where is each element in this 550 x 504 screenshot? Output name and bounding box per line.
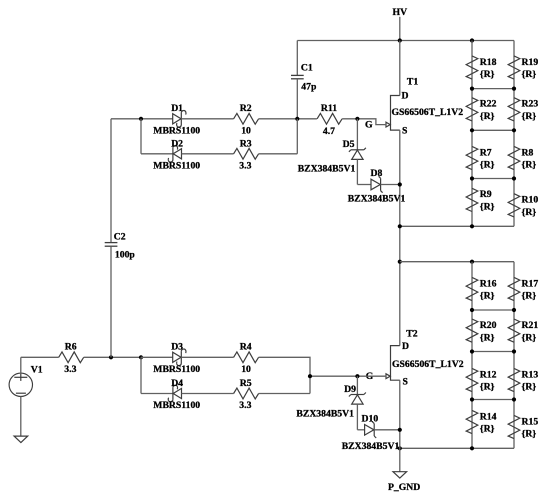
- wire branch down to row 2: [140, 119, 142, 154]
- resistor R4 10: [234, 352, 259, 363]
- svg-text:R12: R12: [480, 369, 497, 380]
- svg-text:BZX384B5V1: BZX384B5V1: [348, 193, 406, 204]
- wire D3 to R4: [181, 356, 233, 358]
- wire T1 source / mid rail: [399, 130, 401, 346]
- resistor R15 {R}: [508, 415, 520, 438]
- svg-text:R16: R16: [480, 278, 497, 289]
- wire top network bottom rail: [400, 225, 514, 227]
- resistor R21 {R}: [508, 319, 520, 342]
- junction dot C1 bottom / gate line: [295, 117, 299, 121]
- svg-text:R4: R4: [240, 342, 252, 353]
- svg-text:MBRS1100: MBRS1100: [153, 400, 200, 411]
- wire R6 to C2 node: [84, 356, 141, 358]
- wire source rail segment to lower network: [398, 260, 402, 264]
- wire HV stub: [399, 17, 401, 41]
- svg-text:R9: R9: [480, 189, 492, 200]
- junction dot D5 tap: [355, 117, 359, 121]
- resistor R5 3.3: [234, 388, 259, 399]
- transistor T1 GS66506T_L1V2: [391, 96, 400, 131]
- diode D2 MBRS1100: [173, 149, 181, 159]
- svg-text:R6: R6: [65, 342, 77, 353]
- junction dot D10/source: [398, 428, 402, 432]
- wire T1 drain: [399, 41, 401, 96]
- svg-text:R3: R3: [240, 138, 252, 149]
- wire R5 to riser: [259, 393, 310, 395]
- svg-text:G: G: [365, 120, 373, 131]
- resistor R17 {R}: [508, 277, 520, 300]
- svg-text:4.7: 4.7: [323, 126, 335, 137]
- svg-text:D3: D3: [171, 342, 183, 353]
- wire right column bottom network: [513, 262, 515, 449]
- svg-text:T1: T1: [407, 76, 418, 87]
- svg-text:D2: D2: [171, 138, 183, 149]
- svg-text:{R}: {R}: [522, 207, 537, 218]
- svg-text:{R}: {R}: [522, 429, 537, 440]
- wire row2 left: [141, 153, 173, 155]
- svg-text:10: 10: [241, 364, 251, 375]
- resistor R10 {R}: [508, 194, 520, 217]
- svg-text:R20: R20: [480, 320, 497, 331]
- junction dot C2 bottom: [109, 355, 113, 359]
- svg-text:MBRS1100: MBRS1100: [153, 160, 200, 171]
- wire R3 to return riser: [259, 153, 298, 155]
- svg-text:{R}: {R}: [522, 332, 537, 343]
- svg-text:R7: R7: [480, 147, 492, 158]
- svg-text:R2: R2: [240, 103, 252, 114]
- svg-text:{R}: {R}: [480, 424, 495, 435]
- resistor R18 {R}: [466, 56, 478, 79]
- svg-text:D: D: [402, 91, 409, 102]
- wire left column top network: [471, 41, 473, 227]
- svg-text:10: 10: [241, 125, 251, 136]
- svg-text:{R}: {R}: [522, 160, 537, 171]
- svg-text:R18: R18: [480, 57, 497, 68]
- wire D9 to D10: [357, 429, 364, 431]
- resistor R7 {R}: [466, 146, 478, 169]
- svg-text:{R}: {R}: [480, 291, 495, 302]
- svg-text:47p: 47p: [301, 82, 316, 93]
- wire V1 to R6: [21, 356, 59, 358]
- wire D8 to source rail: [381, 184, 400, 186]
- junction dot C2 top / gate line: [139, 117, 143, 121]
- wire lower network bottom rail: [400, 447, 514, 449]
- svg-text:D4: D4: [171, 378, 183, 389]
- svg-text:S: S: [403, 376, 408, 387]
- svg-text:P_GND: P_GND: [388, 482, 420, 493]
- wire return riser row2 to gate line: [296, 119, 298, 154]
- svg-text:S: S: [402, 126, 407, 137]
- node lower row boundary 2: [472, 351, 514, 353]
- wire D1 to R2: [181, 118, 233, 120]
- svg-text:BZX384B5V1: BZX384B5V1: [298, 163, 356, 174]
- wire R11 to gate jog: [342, 119, 387, 125]
- svg-text:3.3: 3.3: [239, 400, 251, 411]
- wire V1 top: [20, 357, 22, 373]
- junction dot D9 tap: [355, 374, 359, 378]
- svg-text:GS66506T_L1V2: GS66506T_L1V2: [392, 107, 464, 118]
- resistor R13 {R}: [508, 368, 520, 391]
- svg-text:BZX384B5V1: BZX384B5V1: [342, 441, 400, 452]
- svg-text:R22: R22: [480, 99, 497, 110]
- resistor R11 4.7: [317, 113, 342, 124]
- svg-text:MBRS1100: MBRS1100: [153, 125, 200, 136]
- svg-text:{R}: {R}: [522, 382, 537, 393]
- svg-text:V1: V1: [31, 365, 43, 376]
- svg-text:{R}: {R}: [480, 160, 495, 171]
- node row boundary 1: [472, 88, 514, 90]
- junction dot D3/D4 split: [139, 355, 143, 359]
- wire D10 to source rail: [374, 429, 400, 431]
- ground V1: [14, 436, 28, 442]
- svg-text:R17: R17: [522, 278, 539, 289]
- resistor R6 3.3: [59, 352, 84, 363]
- svg-text:R11: R11: [321, 103, 337, 114]
- svg-text:R23: R23: [522, 99, 539, 110]
- diode D9 BZX384B5V1 zener: [356, 376, 358, 394]
- wire lower network top rail: [400, 261, 514, 263]
- svg-text:3.3: 3.3: [64, 364, 76, 375]
- svg-text:R14: R14: [480, 411, 497, 422]
- diode D5 BZX384B5V1 zener: [356, 119, 358, 150]
- wire R2 to C1 node: [259, 118, 317, 120]
- wire D5 to D8: [357, 184, 371, 186]
- svg-text:{R}: {R}: [522, 69, 537, 80]
- svg-text:MBRS1100: MBRS1100: [153, 364, 200, 375]
- svg-text:D1: D1: [171, 103, 183, 114]
- svg-text:R21: R21: [522, 320, 539, 331]
- svg-text:{R}: {R}: [480, 111, 495, 122]
- wire R4 to riser: [259, 357, 310, 393]
- resistor R20 {R}: [466, 319, 478, 342]
- resistor R8 {R}: [508, 146, 520, 169]
- node row boundary 3: [472, 178, 514, 180]
- node lower row boundary 3: [472, 399, 514, 401]
- junction dot top rail / left resistor column: [470, 38, 474, 42]
- capacitor C1: [296, 41, 298, 76]
- wire V1 bottom: [20, 397, 22, 437]
- resistor R2 10: [234, 113, 259, 124]
- svg-text:{R}: {R}: [480, 69, 495, 80]
- ground P_GND: [393, 472, 407, 478]
- svg-text:C2: C2: [114, 231, 126, 242]
- junction dot D8/source: [398, 182, 402, 186]
- svg-text:{R}: {R}: [522, 111, 537, 122]
- diode D8 BZX384B5V1 zener: [380, 178, 382, 190]
- svg-text:3.3: 3.3: [239, 160, 251, 171]
- resistor R22 {R}: [466, 98, 478, 121]
- resistor R23 {R}: [508, 98, 520, 121]
- svg-text:R5: R5: [240, 378, 252, 389]
- svg-text:{R}: {R}: [480, 332, 495, 343]
- svg-text:D9: D9: [344, 384, 356, 395]
- diode D4 MBRS1100: [173, 388, 181, 398]
- resistor R12 {R}: [466, 368, 478, 391]
- wire gate line 2: [310, 375, 387, 377]
- svg-text:R10: R10: [522, 195, 539, 206]
- svg-text:GS66506T_L1V2: GS66506T_L1V2: [392, 359, 464, 370]
- resistor R14 {R}: [466, 410, 478, 433]
- junction dot gate riser tap: [308, 374, 312, 378]
- node lower row boundary 1: [472, 309, 514, 311]
- wire branch down to row 2 lower: [140, 357, 142, 393]
- svg-text:{R}: {R}: [522, 291, 537, 302]
- wire T2 source: [399, 380, 401, 471]
- capacitor C2 100p: [110, 119, 112, 243]
- diode D10 BZX384B5V1 zener: [373, 424, 375, 436]
- wire gate line 1 left: [111, 118, 173, 120]
- svg-text:D: D: [402, 341, 409, 352]
- diode D1 MBRS1100: [173, 114, 181, 124]
- resistor R9 {R}: [466, 188, 478, 211]
- svg-text:BZX384B5V1: BZX384B5V1: [296, 409, 354, 420]
- svg-text:R19: R19: [522, 57, 539, 68]
- wire top rail y=40.5: [297, 40, 514, 42]
- svg-text:R13: R13: [522, 369, 539, 380]
- wire right column top network: [513, 41, 515, 227]
- svg-text:HV: HV: [393, 7, 408, 18]
- svg-text:C1: C1: [301, 63, 313, 74]
- wire D4 to R5: [182, 393, 234, 395]
- voltage source V1: [9, 373, 32, 396]
- resistor R3 3.3: [234, 148, 259, 159]
- resistor R16 {R}: [466, 277, 478, 300]
- svg-text:100p: 100p: [115, 249, 135, 260]
- svg-text:{R}: {R}: [480, 382, 495, 393]
- svg-text:{R}: {R}: [480, 202, 495, 213]
- svg-text:R8: R8: [522, 147, 534, 158]
- wire D2 to R3: [182, 153, 234, 155]
- svg-text:D10: D10: [362, 414, 379, 425]
- resistor R19 {R}: [508, 56, 520, 79]
- wire row2 lower left: [141, 393, 173, 395]
- node row boundary 2: [472, 129, 514, 131]
- svg-text:R15: R15: [522, 416, 539, 427]
- svg-text:T2: T2: [406, 328, 417, 339]
- junction dot HV/top rail: [398, 38, 402, 42]
- transistor T2 GS66506T_L1V2: [391, 346, 400, 381]
- svg-text:D8: D8: [371, 168, 383, 179]
- diode D3 MBRS1100: [141, 356, 173, 358]
- wire left column bottom network: [471, 262, 473, 449]
- svg-text:D5: D5: [343, 139, 355, 150]
